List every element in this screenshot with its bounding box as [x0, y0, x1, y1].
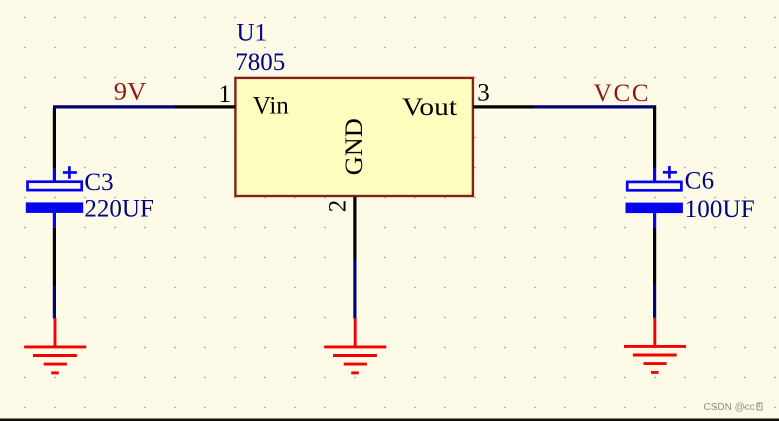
svg-text:1: 1 [219, 81, 232, 108]
svg-text:VCC: VCC [594, 80, 649, 107]
C6 plus sign [663, 171, 677, 174]
C3 bottom stub [53, 213, 56, 228]
wire VCC horizontal (blue) [534, 105, 653, 108]
wire right vertical (black) [653, 105, 656, 167]
C6 top plate (hollow) [627, 182, 681, 190]
wire left vertical (black) [53, 108, 56, 169]
svg-text:C6: C6 [685, 167, 715, 194]
svg-text:100UF: 100UF [685, 196, 755, 223]
C3 top plate (hollow) [28, 182, 82, 190]
wire pin2 to ground (blue) [353, 259, 356, 319]
svg-text:7805: 7805 [235, 49, 285, 76]
svg-text:220UF: 220UF [84, 196, 153, 223]
C6 bottom plate (solid) [626, 203, 683, 214]
svg-text:GND: GND [341, 118, 368, 175]
op-amp U1 (7805 regulator body) [235, 78, 473, 196]
ground symbol right [624, 318, 686, 373]
svg-text:U1: U1 [237, 20, 268, 47]
ground symbol middle [324, 318, 386, 373]
svg-text:2: 2 [324, 200, 351, 213]
wire left vertical blue stub into C3 [53, 169, 56, 182]
wire 9V horizontal [53, 105, 176, 108]
wire right vertical blue stub into C6 [653, 168, 656, 182]
pin 1 (Vin) [174, 105, 235, 108]
capacitor C6 [626, 166, 683, 228]
pin 2 (GND) stub [353, 197, 356, 259]
svg-text:3: 3 [477, 79, 490, 106]
svg-text:C3: C3 [84, 169, 113, 196]
capacitor C3 [26, 166, 83, 228]
svg-text:Vin: Vin [253, 92, 289, 119]
svg-text:9V: 9V [114, 79, 147, 106]
wire C3 to ground (blue) [53, 286, 56, 318]
pin 3 (Vout) [473, 105, 534, 108]
wire C3 to ground (black) [53, 228, 56, 287]
svg-text:CSDN @cc4: CSDN @cc4 [704, 402, 761, 413]
C3 plus sign [63, 171, 77, 174]
sheet border bottom line [0, 419, 779, 421]
C3 bottom plate (solid) [26, 202, 83, 213]
wire C6 to ground (blue) [653, 284, 656, 318]
svg-text:Vout: Vout [402, 94, 457, 121]
C6 bottom stub [653, 213, 656, 228]
wire C6 to ground (black) [653, 228, 656, 284]
ground symbol left [24, 318, 86, 373]
